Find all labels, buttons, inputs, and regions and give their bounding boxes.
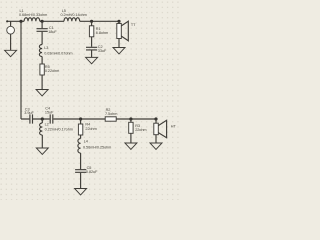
- resistor R2: [105, 117, 116, 121]
- svg-text:L4: L4: [84, 140, 88, 144]
- capacitor C5: [75, 170, 86, 173]
- ground (TT): [113, 48, 125, 54]
- ground (L2): [36, 148, 48, 154]
- ground (C2): [86, 57, 98, 63]
- inductor L5: [64, 18, 80, 22]
- inductor L1: [24, 18, 40, 22]
- label R4 value 22ohm: [85, 123, 96, 131]
- svg-text:18uF: 18uF: [48, 30, 57, 34]
- svg-text:0.2mH/0.14ohm: 0.2mH/0.14ohm: [61, 13, 87, 17]
- ground (HT): [150, 143, 162, 149]
- label C1 value 18uF: [48, 26, 57, 34]
- inductor L4: [78, 139, 81, 154]
- svg-text:TT: TT: [131, 23, 136, 27]
- wire top bus: [7, 20, 119, 22]
- node corner to tweeter HT: [154, 117, 157, 120]
- speaker HT: [154, 120, 167, 137]
- resistor R1: [89, 26, 93, 37]
- label L1 value 0.68mH/0.33ohm: [19, 9, 47, 17]
- svg-text:0.22mH/0.17ohm: 0.22mH/0.17ohm: [45, 128, 73, 132]
- svg-text:0.56mH/0.25ohm: 0.56mH/0.25ohm: [83, 145, 111, 149]
- resistor R5: [40, 64, 44, 75]
- svg-text:0.22ohm: 0.22ohm: [45, 69, 59, 73]
- capacitor C1: [37, 29, 48, 32]
- ground (R5): [36, 90, 48, 96]
- wire L2 branch: [41, 119, 43, 148]
- label L5 value 0.2mH/0.14ohm: [61, 9, 87, 17]
- label R2 value 7.5ohm: [105, 108, 117, 116]
- capacitor C2: [86, 47, 97, 50]
- wire C1 branch: [41, 21, 43, 89]
- label R5 value 0.22ohm: [45, 65, 59, 73]
- svg-text:3.9uF: 3.9uF: [24, 111, 34, 115]
- label C5 value 0.82uF: [86, 166, 98, 174]
- inductor L2: [40, 123, 43, 135]
- ground (R3): [125, 143, 137, 149]
- label R3 value 22ohm: [135, 124, 146, 132]
- wire R1 branch: [91, 21, 93, 57]
- svg-text:0.03mH/0.07ohm: 0.03mH/0.07ohm: [44, 51, 72, 55]
- resistor R4: [78, 124, 82, 135]
- label C4 value 15uF: [45, 107, 54, 115]
- speaker TT: [117, 21, 129, 41]
- resistor R3: [129, 122, 133, 133]
- node junction C3/L2: [41, 117, 44, 120]
- inductor L3: [39, 45, 42, 57]
- generator G1: [7, 21, 15, 50]
- label L2 value 0.22mH/0.17ohm: [45, 122, 73, 131]
- wire HT stub: [155, 119, 157, 143]
- label C3 value 3.9uF: [24, 108, 34, 116]
- svg-text:22ohm: 22ohm: [135, 128, 146, 132]
- svg-text:0.68mH/0.33ohm: 0.68mH/0.33ohm: [19, 13, 47, 17]
- ground (C5): [75, 189, 87, 195]
- node junction L1/C1: [41, 20, 44, 23]
- svg-text:6.8ohm: 6.8ohm: [96, 31, 108, 35]
- wire R3 branch: [130, 119, 132, 143]
- node junction L5/R1: [90, 20, 93, 23]
- label L3 value 0.03mH/0.07ohm: [44, 46, 72, 55]
- node corner to tweeter TT: [117, 20, 120, 23]
- svg-text:33uF: 33uF: [98, 49, 107, 53]
- capacitor C3: [30, 114, 33, 123]
- svg-text:HT: HT: [171, 124, 177, 128]
- svg-text:15uF: 15uF: [45, 110, 54, 114]
- svg-text:L3: L3: [44, 46, 48, 50]
- wire TT stub: [118, 21, 120, 47]
- svg-text:L2: L2: [45, 122, 49, 126]
- capacitor C4: [50, 114, 53, 123]
- wire R4 branch: [80, 119, 82, 189]
- wire bottom bus: [21, 118, 156, 120]
- node junction R2/R3: [129, 117, 132, 120]
- label C2 value 33uF: [98, 45, 107, 53]
- svg-text:7.5ohm: 7.5ohm: [105, 112, 117, 116]
- wire left bus vertical: [20, 21, 22, 119]
- svg-text:0.82uF: 0.82uF: [86, 170, 98, 174]
- ground (source): [5, 50, 17, 56]
- svg-text:22ohm: 22ohm: [85, 127, 96, 131]
- label R1 value 6.8ohm: [96, 27, 108, 35]
- node source terminal: [6, 20, 8, 22]
- node junction R4 branch: [79, 117, 82, 120]
- label L4 value 0.56mH/0.25ohm: [83, 140, 111, 150]
- node junction top bus: [19, 20, 22, 23]
